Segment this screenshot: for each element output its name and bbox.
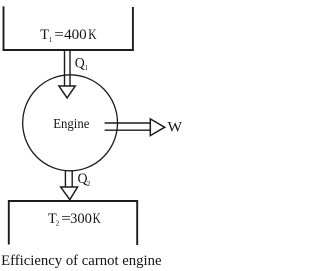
label Q2	[78, 171, 91, 188]
engine circle	[23, 75, 118, 171]
label W	[168, 120, 183, 136]
work output W arrowhead	[150, 119, 164, 136]
cold reservoir T2 right wall	[136, 201, 138, 245]
svg-text:Engine: Engine	[53, 116, 89, 131]
svg-text:K: K	[93, 211, 102, 227]
cold reservoir T2 top wall	[8, 200, 138, 202]
svg-text:=: =	[54, 27, 64, 43]
work output W arrow shaft	[105, 123, 151, 130]
heat flow Q1 arrowhead	[59, 86, 75, 98]
cold reservoir T2 left wall	[8, 201, 10, 245]
svg-text:K: K	[88, 27, 97, 43]
hot reservoir T1 right wall	[132, 7, 134, 51]
label T2 = 300 K	[48, 211, 101, 228]
heat flow Q2 arrow shaft	[65, 171, 72, 188]
svg-text:Efficiency of carnot engine: Efficiency of carnot engine	[1, 253, 161, 269]
svg-text:1: 1	[49, 36, 53, 44]
svg-text:Q: Q	[75, 55, 85, 71]
svg-text:1: 1	[85, 64, 89, 72]
svg-text:2: 2	[87, 180, 91, 188]
hot reservoir T1 left wall	[3, 6, 5, 51]
label Q1	[75, 55, 89, 72]
svg-text:300: 300	[70, 211, 92, 227]
heat flow Q2 arrowhead	[61, 187, 78, 200]
caption Efficiency of carnot engine	[1, 253, 161, 269]
hot reservoir T1 bottom wall	[3, 49, 134, 51]
svg-text:400: 400	[64, 27, 87, 43]
label Engine	[53, 116, 89, 131]
svg-text:2: 2	[56, 220, 60, 228]
heat flow Q1 arrow shaft	[65, 51, 71, 86]
label T1 = 400 K	[40, 27, 97, 44]
svg-text:W: W	[168, 120, 183, 136]
